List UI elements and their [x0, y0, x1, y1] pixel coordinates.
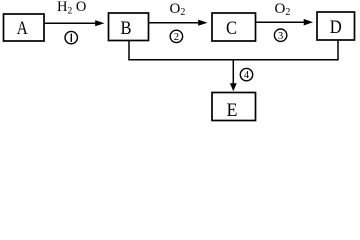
svg-text:A: A [17, 19, 29, 39]
label O2 (second) [275, 1, 291, 18]
svg-text:2: 2 [174, 32, 179, 43]
circled 1 [65, 31, 77, 43]
svg-text:H2 O: H2 O [57, 0, 86, 16]
svg-text:3: 3 [278, 31, 283, 42]
svg-text:C: C [226, 19, 237, 39]
svg-text:4: 4 [244, 70, 250, 81]
circled 4 [240, 68, 252, 81]
box E [212, 93, 256, 122]
arrow C to D [256, 19, 314, 26]
label H2O [57, 0, 86, 16]
wire from B down [128, 41, 130, 60]
box B [109, 13, 149, 41]
svg-text:D: D [330, 18, 342, 38]
arrow B to C [149, 20, 208, 26]
label O2 (first) [170, 1, 186, 18]
wire from D down [337, 40, 339, 60]
svg-text:B: B [121, 19, 132, 39]
circled 3 [274, 29, 286, 42]
svg-text:E: E [227, 101, 238, 121]
wire horizontal join [128, 59, 338, 61]
arrow down to E [230, 60, 237, 92]
box A [4, 14, 45, 41]
box D [317, 12, 355, 40]
arrow A to B [45, 20, 105, 26]
box C [212, 13, 256, 41]
circled 2 [170, 30, 182, 43]
